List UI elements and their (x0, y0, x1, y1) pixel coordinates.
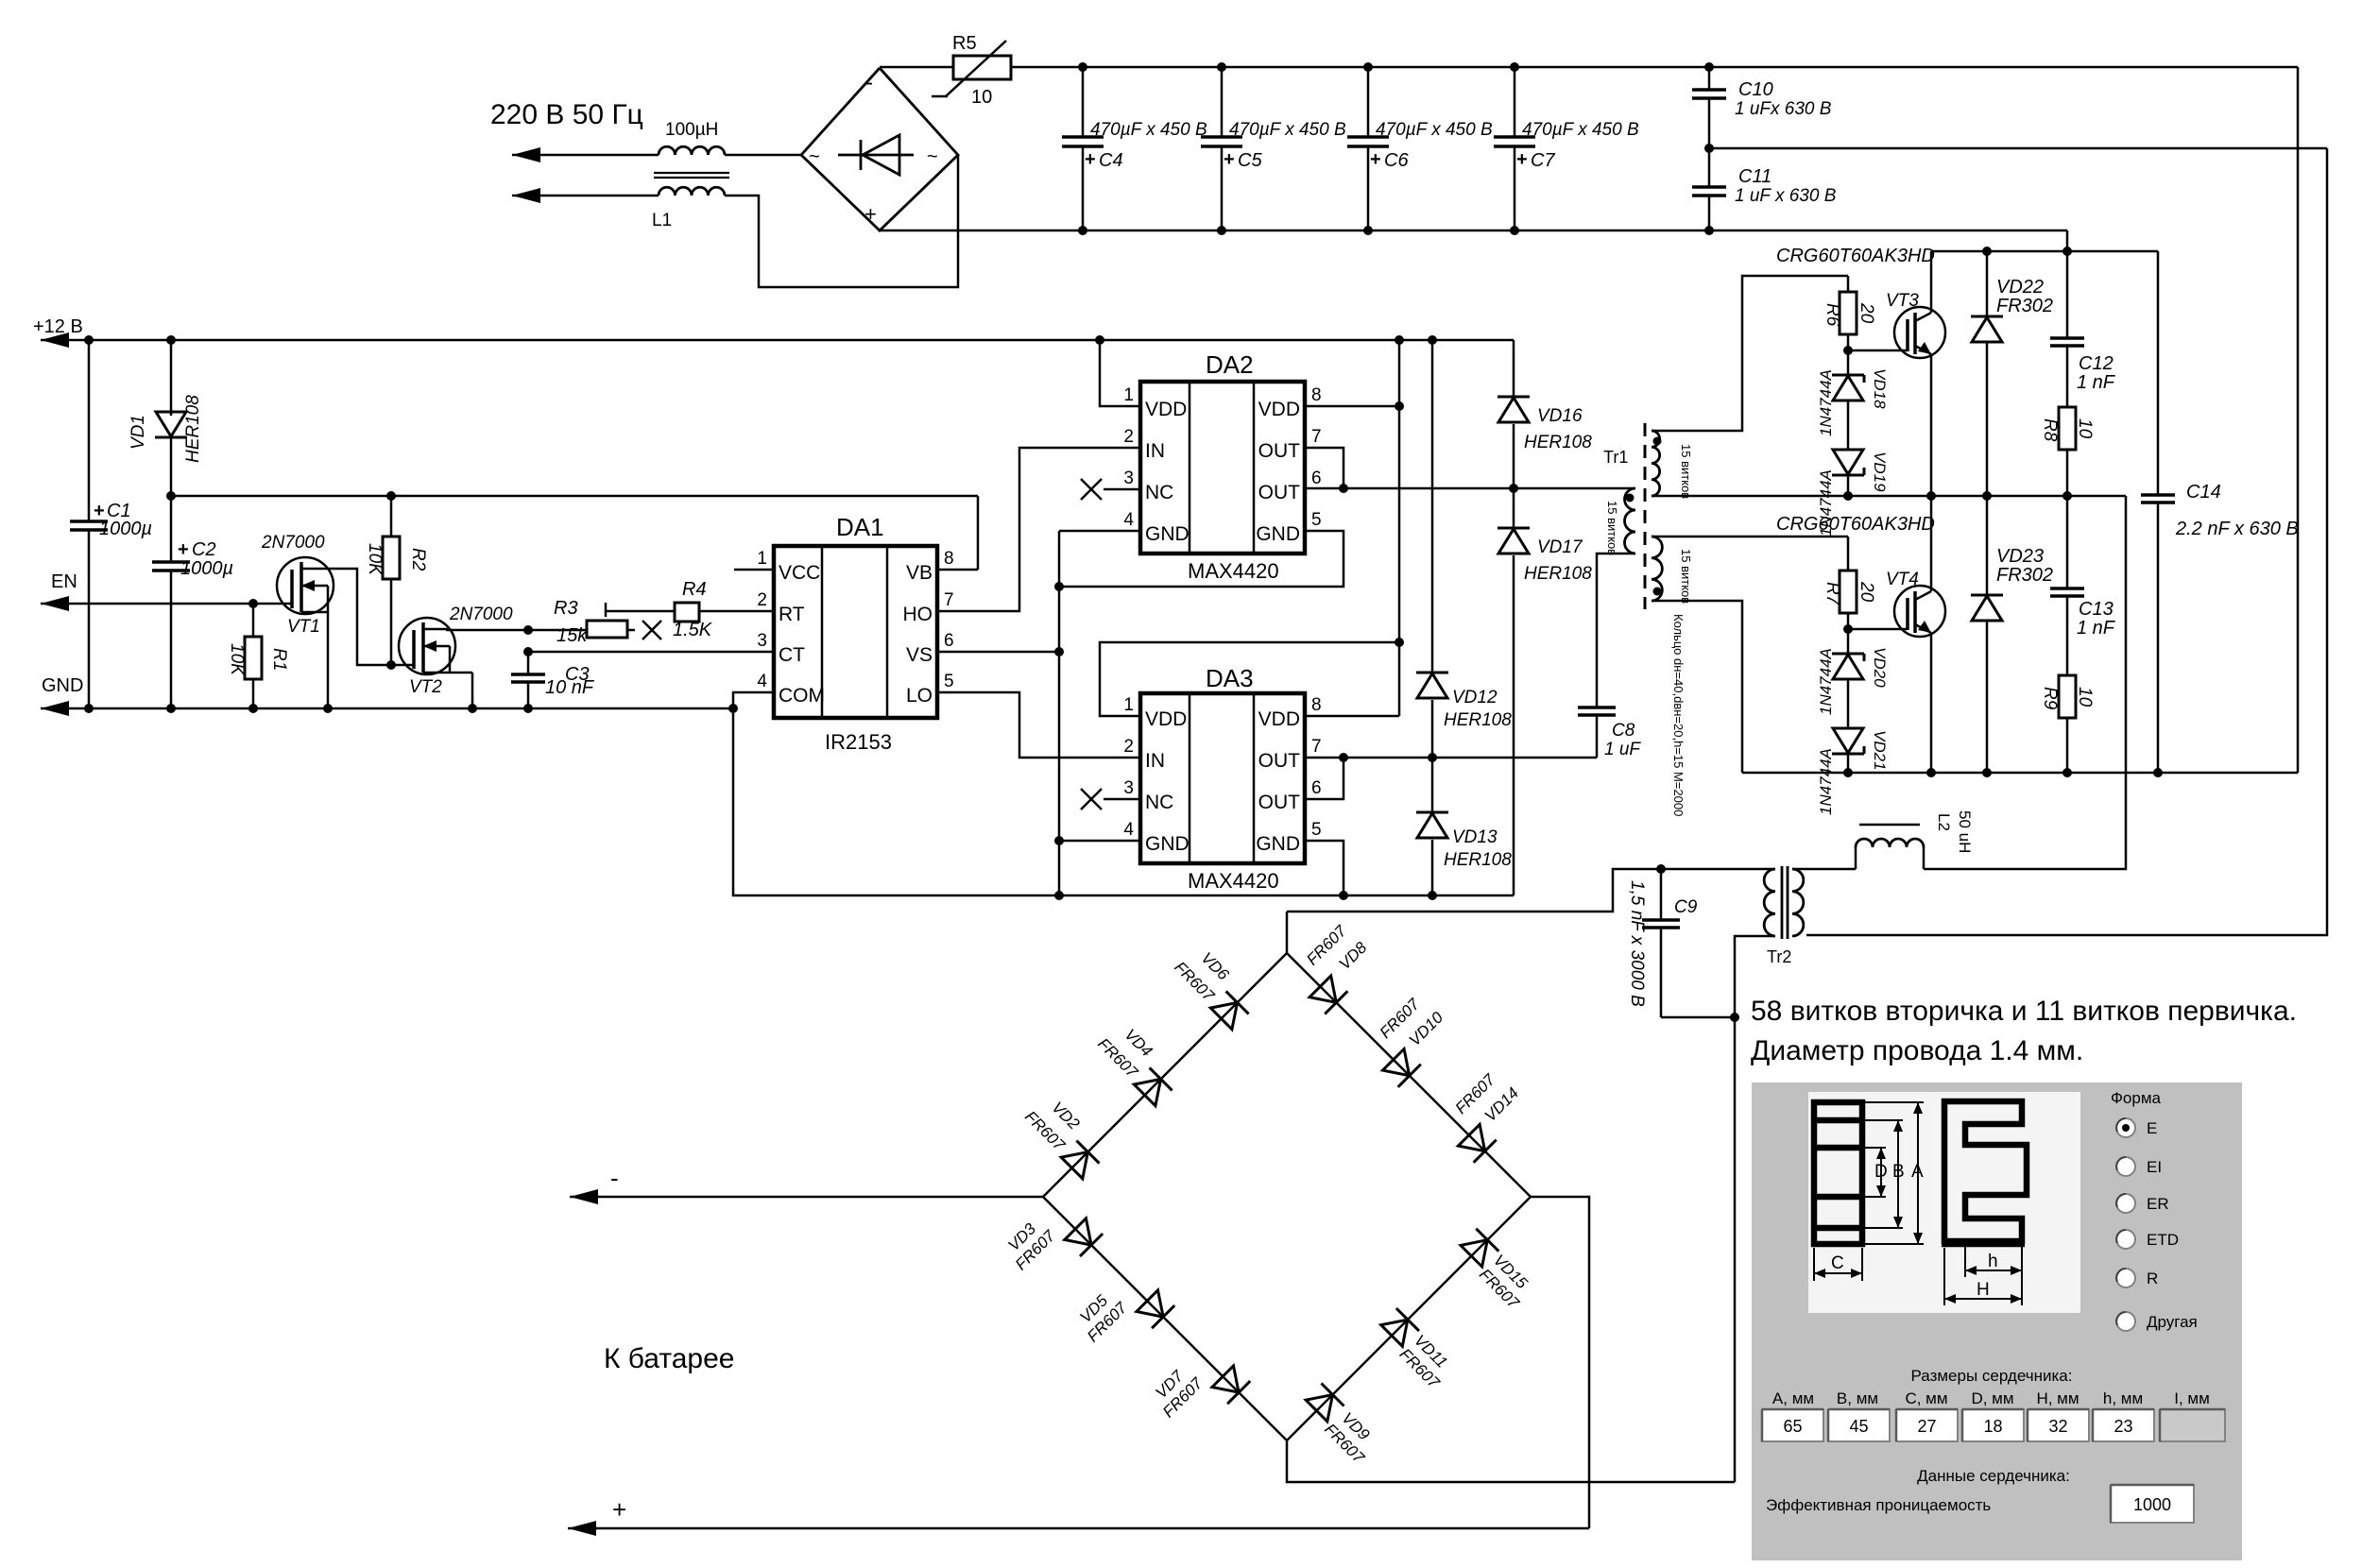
junction VT4 gate node (1843, 624, 1853, 634)
svg-text:FR302: FR302 (1996, 296, 2053, 316)
wire output bridge lower-left edge (1043, 1197, 1287, 1440)
svg-text:GND: GND (1145, 523, 1190, 545)
svg-text:1 nF: 1 nF (2077, 618, 2116, 639)
capacitor C3 (527, 652, 530, 674)
svg-text:65: 65 (1783, 1417, 1802, 1436)
junction COM GND rail (728, 704, 738, 713)
svg-text:R7: R7 (1823, 582, 1842, 606)
diode VD16 (1498, 396, 1533, 424)
resistor R2 (390, 496, 393, 537)
svg-text:L1: L1 (652, 211, 672, 230)
svg-text:1N4744A: 1N4744A (1817, 648, 1835, 715)
svg-text:VT2: VT2 (409, 677, 442, 697)
svg-text:470µF x 450 В: 470µF x 450 В (1090, 120, 1207, 140)
diode VD9 (1306, 1395, 1332, 1422)
svg-text:GND: GND (1145, 833, 1190, 855)
transformer Tr1 secondary bottom dot (1653, 588, 1662, 596)
panel left core figure (1811, 1099, 1818, 1247)
junction C3 top (523, 647, 533, 656)
svg-text:В, мм: В, мм (1837, 1389, 1878, 1407)
svg-text:R4: R4 (682, 579, 707, 600)
svg-text:Данные сердечника:: Данные сердечника: (1917, 1467, 2070, 1485)
svg-text:1N4744A: 1N4744A (1817, 369, 1835, 436)
svg-text:R5: R5 (952, 33, 977, 54)
junction C4 bottom (1078, 226, 1087, 235)
svg-text:VS: VS (906, 644, 933, 666)
transformer Tr1 secondary top winding (1652, 431, 1660, 496)
svg-text:C2: C2 (192, 539, 216, 560)
junction R9 bottom rail (2062, 768, 2072, 777)
svg-text:10 nF: 10 nF (545, 677, 595, 698)
svg-text:10: 10 (2075, 418, 2095, 439)
capacitor C4 (1082, 67, 1085, 137)
junction C6 bottom (1363, 226, 1373, 235)
svg-text:470µF x 450 В: 470µF x 450 В (1229, 120, 1346, 140)
svg-text:C6: C6 (1384, 150, 1409, 171)
svg-text:4: 4 (757, 672, 767, 691)
junction VD21 bottom rail (1843, 768, 1853, 777)
svg-text:OUT: OUT (1258, 750, 1301, 772)
svg-text:VT4: VT4 (1886, 570, 1919, 589)
svg-text:A: A (1911, 1162, 1924, 1182)
wire right vertical top rail to emitter rail (2297, 67, 2300, 773)
wire DA1 pin5 LO to DA3 IN (937, 692, 1140, 758)
svg-text:RT: RT (779, 604, 805, 625)
svg-text:15 витков: 15 витков (1679, 444, 1693, 499)
svg-text:1.5K: 1.5K (673, 620, 713, 640)
svg-text:C5: C5 (1238, 150, 1262, 171)
svg-text:1 uF: 1 uF (1604, 740, 1641, 759)
svg-text:1 uF x 630 В: 1 uF x 630 В (1735, 186, 1837, 206)
wire plus output loop with arrow (1531, 1197, 1589, 1528)
wire DA3 pin1 VDD feed (1100, 642, 1399, 716)
svg-text:32: 32 (2048, 1417, 2067, 1436)
svg-text:R: R (2147, 1270, 2158, 1287)
varistor R5 (953, 56, 1011, 79)
svg-text:VD22: VD22 (1996, 277, 2044, 298)
svg-text:EN: EN (51, 571, 77, 592)
diode VD8 (1309, 976, 1336, 1002)
wire VT3 gate (1848, 349, 1908, 352)
svg-text:COM: COM (779, 685, 825, 707)
panel dimension h (1964, 1245, 1966, 1277)
capacitor C2 (152, 560, 190, 564)
wire AC line 2 to bridge right vertex (725, 155, 958, 287)
svg-text:GND: GND (1256, 833, 1300, 855)
svg-text:C13: C13 (2079, 599, 2114, 620)
svg-text:6: 6 (1311, 778, 1322, 798)
svg-text:6: 6 (944, 631, 954, 651)
svg-text:HER108: HER108 (1524, 564, 1592, 584)
resistor R6 (1847, 276, 1850, 292)
capacitor C14 (2157, 251, 2160, 495)
svg-text:E: E (2147, 1119, 2157, 1137)
transformer Tr1 secondary bottom winding (1652, 537, 1662, 601)
panel dimension C (1813, 1248, 1815, 1281)
panel value box I empty (2160, 1409, 2225, 1441)
svg-text:23: 23 (2114, 1417, 2132, 1436)
svg-text:5: 5 (1311, 820, 1322, 840)
svg-text:IN: IN (1145, 750, 1165, 772)
svg-text:VT1: VT1 (287, 617, 320, 637)
panel value box 1000 (2111, 1485, 2194, 1523)
svg-text:VCC: VCC (779, 562, 820, 584)
radio button Другая (2116, 1312, 2135, 1331)
junction VD12 rail (1428, 335, 1437, 345)
diode VD13 (1416, 811, 1452, 840)
svg-text:CRG60T60AK3HD: CRG60T60AK3HD (1776, 246, 1935, 266)
junction DA2 pin8 (1395, 401, 1404, 411)
junction OUT VD12 VD13 (1428, 753, 1437, 762)
junction C14 bottom rail (2153, 768, 2163, 777)
wire VT2 gate (391, 664, 414, 667)
svg-text:2: 2 (1123, 427, 1134, 447)
svg-text:45: 45 (1849, 1417, 1868, 1436)
wire VB supply rail y525 (171, 495, 978, 498)
svg-text:C10: C10 (1738, 79, 1773, 100)
transistor VT4 IGBT (1894, 586, 1945, 637)
wire HV+ top rail (880, 66, 953, 69)
wire Tr2 primary bottom (1735, 936, 1775, 1482)
junction C12 top (2062, 247, 2072, 256)
junction DA3 pin5 bus (1339, 891, 1348, 900)
svg-text:7: 7 (944, 590, 954, 610)
junction C7 bottom (1510, 226, 1519, 235)
panel dimension H (1943, 1248, 1945, 1305)
panel dimension B (1865, 1119, 1903, 1121)
diode VD15 (1461, 1240, 1487, 1267)
svg-text:HER108: HER108 (1524, 433, 1592, 452)
diode VD22 (1986, 251, 1989, 316)
panel value box 45 (1828, 1409, 1890, 1441)
svg-text:220 В 50 Гц: 220 В 50 Гц (490, 99, 643, 130)
zener VD21 (1832, 753, 1864, 756)
svg-text:NC: NC (1145, 792, 1173, 813)
svg-text:2N7000: 2N7000 (261, 533, 325, 553)
diode VD4 (1134, 1079, 1160, 1105)
panel dimension D (1865, 1147, 1886, 1149)
svg-text:IN: IN (1145, 440, 1165, 462)
svg-text:GND: GND (42, 675, 83, 696)
wire AC line 2 with arrow (512, 188, 540, 203)
svg-text:20: 20 (1857, 581, 1876, 603)
svg-text:R8: R8 (2040, 418, 2060, 442)
svg-text:VDD: VDD (1145, 399, 1187, 420)
wire VT3 emitter to VS rail (1930, 357, 1933, 496)
svg-text:D: D (1874, 1162, 1888, 1182)
svg-text:LO: LO (906, 685, 933, 707)
svg-text:D, мм: D, мм (1971, 1389, 2013, 1407)
inductor L1 core (654, 172, 729, 174)
svg-text:MAX4420: MAX4420 (1188, 869, 1279, 893)
transformer Tr2 secondary winding (1792, 869, 1804, 936)
svg-text:10K: 10K (365, 543, 385, 576)
svg-text:470µF x 450 В: 470µF x 450 В (1522, 120, 1639, 140)
trimmer R3 terminator X (642, 621, 661, 639)
svg-text:R6: R6 (1823, 303, 1842, 327)
svg-text:VDD: VDD (1258, 399, 1300, 420)
svg-text:А, мм: А, мм (1772, 1389, 1814, 1407)
capacitor C1 (70, 520, 108, 523)
capacitor C7 (1514, 67, 1516, 137)
wire VT3 collector rail (1931, 250, 2158, 253)
svg-text:Размеры сердечника:: Размеры сердечника: (1911, 1367, 2073, 1385)
svg-text:VD23: VD23 (1996, 546, 2044, 567)
wire VDD bus vertical (1398, 340, 1401, 716)
zener VD19 (1832, 474, 1864, 477)
wire VT2 drain to R3 (446, 629, 528, 632)
junction VT2 drain R3 C3 (523, 625, 533, 635)
wire DA3 pin5 GND jog (1305, 841, 1344, 895)
svg-text:C8: C8 (1612, 721, 1635, 741)
svg-text:27: 27 (1917, 1417, 1936, 1436)
svg-text:100µH: 100µH (665, 120, 718, 140)
svg-text:VD19: VD19 (1871, 452, 1889, 492)
svg-text:+: + (1370, 149, 1381, 170)
svg-text:470µF x 450 В: 470µF x 450 В (1376, 120, 1493, 140)
svg-text:C4: C4 (1099, 150, 1123, 171)
junction C10 top (1704, 62, 1714, 72)
transformer Tr1 primary winding (1625, 488, 1636, 554)
svg-text:+: + (1224, 149, 1235, 170)
svg-text:2N7000: 2N7000 (449, 605, 513, 624)
junction VT1 source (323, 704, 333, 713)
wire DA2 pin8 VDD (1305, 405, 1399, 408)
wire corner to VT3 collector rail (2066, 230, 2069, 251)
wire DA2 pin7 OUT jog (1305, 448, 1344, 488)
wire AC line 1 with arrow (512, 147, 540, 162)
op-amp U DA1 IR2153 box (774, 546, 937, 718)
zener VD18 (1847, 350, 1850, 375)
junction VDD bus rail (1395, 335, 1404, 345)
junction VS bus (1054, 647, 1064, 656)
svg-text:5: 5 (944, 672, 954, 691)
panel value box 23 (2093, 1409, 2154, 1441)
wire minus output with arrow (570, 1189, 598, 1204)
svg-text:Эффективная проницаемость: Эффективная проницаемость (1766, 1496, 1991, 1514)
junction VD1 C2 (166, 335, 176, 345)
junction VT3 emitter VS (1926, 491, 1936, 501)
diode VD2 (1061, 1152, 1087, 1179)
svg-text:R9: R9 (2040, 687, 2060, 710)
junction VD13 bus (1428, 891, 1437, 900)
junction C3 bottom (523, 704, 533, 713)
svg-text:C7: C7 (1531, 150, 1555, 171)
junction C4 top (1078, 62, 1087, 72)
wire VT1 drain to R2 bottom node (328, 569, 391, 665)
wire Tr1 bottom secondary bottom to emitter rail (1652, 601, 1742, 773)
svg-text:C9: C9 (1674, 897, 1698, 917)
junction R1 top (248, 599, 258, 608)
svg-text:3: 3 (1123, 778, 1134, 798)
svg-text:Диаметр провода 1.4 мм.: Диаметр провода 1.4 мм. (1751, 1035, 2083, 1066)
junction VT4 emitter (1926, 768, 1936, 777)
svg-text:~: ~ (809, 146, 820, 167)
wire VT4 collector to VS rail (1930, 496, 1933, 587)
wire CT line (528, 651, 774, 654)
svg-text:1 uFx 630 В: 1 uFx 630 В (1735, 99, 1832, 119)
diode VD5 (1137, 1290, 1163, 1317)
junction VD22 top (1982, 247, 1992, 256)
svg-text:ER: ER (2147, 1195, 2169, 1213)
wire GND rail with arrow (41, 701, 69, 716)
junction OUT VD16 VD17 (1509, 484, 1518, 493)
resistor R1 (252, 604, 255, 637)
wire Tr1 primary bottom to C8 (1597, 554, 1635, 707)
diode VD11 (1381, 1320, 1408, 1346)
wire DA1 pin4 COM down to bottom bus (733, 692, 1514, 895)
capacitor C1 column wire (88, 340, 91, 521)
diode VD10 (1383, 1049, 1410, 1076)
svg-text:1N4744A: 1N4744A (1817, 748, 1835, 815)
transistor VT3 IGBT (1894, 307, 1945, 358)
junction C11 bottom (1704, 226, 1714, 235)
svg-text:1,5 nF x 3000 В: 1,5 nF x 3000 В (1627, 880, 1647, 1007)
transformer Tr1 core dashed (1644, 423, 1647, 609)
diode VD1 (155, 436, 187, 439)
wire DA2 pin1 VDD to +12 (1100, 340, 1140, 406)
svg-text:h, мм: h, мм (2103, 1389, 2143, 1407)
capacitor C8 (1578, 706, 1616, 709)
svg-text:1000µ: 1000µ (99, 519, 152, 539)
svg-text:18: 18 (1983, 1417, 2002, 1436)
wire DA1 pin7 HO to DA2 IN (937, 448, 1140, 611)
junction DA2 GND bus (1054, 582, 1064, 591)
svg-text:+: + (864, 202, 877, 226)
diode VD1 column wire (170, 340, 173, 416)
svg-text:C14: C14 (2186, 482, 2221, 503)
svg-text:Форма: Форма (2111, 1089, 2162, 1107)
diode VD23 (1986, 496, 1989, 595)
svg-text:I, мм: I, мм (2174, 1389, 2210, 1407)
wire DA2 pin4 GND (1059, 530, 1140, 533)
junction DA3 pin4 bus (1054, 836, 1064, 845)
capacitor C5 (1221, 67, 1224, 137)
svg-text:VDD: VDD (1258, 708, 1300, 730)
resistor R8 (2059, 407, 2076, 450)
svg-text:58 витков вторичка и 11 витков: 58 витков вторичка и 11 витков первичка. (1751, 996, 2297, 1027)
svg-text:5: 5 (1311, 510, 1322, 530)
svg-text:HO: HO (903, 604, 933, 625)
svg-text:-: - (610, 1164, 619, 1192)
diode VD3 (1065, 1219, 1091, 1245)
svg-text:8: 8 (944, 549, 954, 569)
wire DA3 pin6 OUT jog (1305, 758, 1344, 799)
pin 1 DA1 VCC stub wire (734, 569, 774, 571)
svg-text:EI: EI (2147, 1158, 2162, 1176)
panel value box 32 (2028, 1409, 2089, 1441)
panel value box 65 (1762, 1409, 1823, 1441)
svg-text:2: 2 (1123, 737, 1134, 757)
svg-text:h: h (1988, 1252, 1998, 1271)
wire VS drop to L2 junction (1924, 496, 2126, 869)
svg-text:HER108: HER108 (1444, 850, 1512, 870)
wire VT4 gate (1848, 628, 1908, 631)
wire output bridge upper-right edge (1287, 953, 1531, 1197)
junction C5 bottom (1217, 226, 1226, 235)
wire EN line with arrow (41, 596, 69, 611)
wire diamond top vertex up (1286, 912, 1289, 953)
capacitor C10 (1708, 67, 1711, 90)
capacitor C12 (2066, 251, 2069, 338)
junction DA2 OUT (1339, 484, 1348, 493)
wire +12V rail with arrow (41, 332, 69, 348)
svg-text:NC: NC (1145, 482, 1173, 503)
svg-text:15k: 15k (556, 625, 588, 646)
svg-text:10: 10 (971, 87, 992, 108)
svg-text:OUT: OUT (1258, 440, 1301, 462)
radio button ER (2116, 1194, 2135, 1213)
junction VD22 bottom (1982, 491, 1992, 501)
panel right figure bottom bar (1942, 1241, 2025, 1248)
panel right core figure E profile (1944, 1101, 2027, 1244)
radio button E (2116, 1118, 2135, 1137)
svg-text:4: 4 (1123, 820, 1134, 840)
wire diamond top to Tr2 primary top (1287, 869, 1775, 912)
wire diamond bottom loop to Tr2 (1287, 1440, 1735, 1482)
svg-text:HER108: HER108 (183, 395, 203, 463)
wire mid HV rail to right (1709, 147, 2327, 150)
panel value box 27 (1896, 1409, 1958, 1441)
diode VD14 (1458, 1124, 1484, 1150)
svg-text:MAX4420: MAX4420 (1188, 559, 1279, 583)
svg-text:4: 4 (1123, 510, 1134, 530)
svg-text:C: C (1831, 1253, 1844, 1273)
junction C1 bottom (84, 704, 94, 713)
transformer Tr1 primary dot (1626, 494, 1635, 503)
wire VD16 VD17 column (1513, 340, 1515, 895)
diode VD7 (1212, 1366, 1239, 1392)
wire DA3 pin7 OUT to C8 (1305, 757, 1597, 759)
svg-text:OUT: OUT (1258, 482, 1301, 503)
resistor R7 (1847, 537, 1850, 571)
diode VD12 (1416, 672, 1452, 700)
junction C1 top (84, 335, 94, 345)
svg-text:CRG60T60AK3HD: CRG60T60AK3HD (1776, 514, 1935, 535)
junction DA3 VDD (1395, 638, 1404, 647)
transformer Tr2 core (1781, 866, 1784, 939)
transistor VT2 2N7000 (399, 618, 455, 674)
svg-text:R3: R3 (554, 598, 578, 619)
svg-text:15 витков: 15 витков (1679, 549, 1693, 604)
wire DA1 pin8 VB to supply (937, 569, 978, 571)
wire VT2 source to GND (450, 672, 472, 674)
svg-text:50 uH: 50 uH (1956, 810, 1974, 853)
svg-text:-: - (865, 70, 873, 95)
junction R1 bottom (248, 704, 258, 713)
svg-text:6: 6 (1311, 469, 1322, 488)
svg-text:DA3: DA3 (1206, 664, 1254, 692)
svg-text:CT: CT (779, 644, 805, 666)
svg-text:~: ~ (927, 146, 938, 167)
transistor VT1 2N7000 (277, 557, 334, 614)
svg-text:Tr2: Tr2 (1767, 947, 1791, 966)
panel dimension A (1865, 1101, 1924, 1103)
diode VD6 (1210, 1002, 1237, 1029)
panel value box 18 (1962, 1409, 2024, 1441)
junction VT3 gate node (1843, 346, 1853, 355)
svg-text:VDD: VDD (1145, 708, 1187, 730)
trimmer R3 (528, 629, 587, 632)
junction GND bus bottom (1054, 891, 1064, 900)
junction C9 top (1656, 864, 1666, 874)
svg-text:VD1: VD1 (128, 415, 148, 450)
svg-text:R1: R1 (269, 648, 289, 671)
capacitor C13 (2066, 496, 2069, 588)
svg-text:Tr1: Tr1 (1603, 448, 1628, 467)
svg-text:7: 7 (1311, 737, 1322, 757)
svg-text:Другая: Другая (2147, 1313, 2198, 1331)
